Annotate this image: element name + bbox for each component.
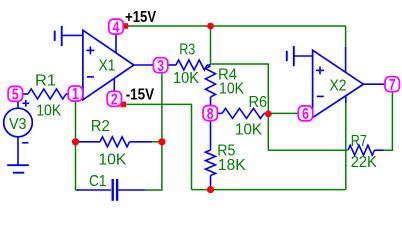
wire R6 junction to node 6	[268, 112, 298, 114]
wire +15V rail	[128, 25, 346, 27]
svg-text:10K: 10K	[36, 103, 61, 120]
wire R5 top stub	[210, 121, 212, 150]
ground at X2 + input	[294, 55, 312, 57]
node 1	[68, 86, 82, 101]
wire R3 left stub	[167, 64, 176, 66]
svg-text:6: 6	[302, 106, 309, 123]
wire R2 right green segment	[152, 141, 162, 143]
svg-text:7: 7	[389, 77, 396, 94]
resistor R4	[206, 66, 216, 97]
junction R2 left	[72, 138, 79, 145]
svg-text:8: 8	[207, 106, 214, 123]
wire X2 negative supply pin	[345, 95, 347, 103]
wire X2 positive supply drop	[345, 26, 347, 47]
voltage source V3	[4, 108, 33, 137]
junction R2 right	[158, 138, 165, 145]
resistor R3	[176, 60, 207, 70]
wire node 3 down to R2/C1 right	[145, 73, 162, 190]
wire node5 to V3	[17, 102, 19, 109]
svg-text:4: 4	[113, 19, 120, 36]
node 7	[385, 77, 399, 92]
junction R6 / R7	[265, 111, 272, 118]
wire R3 right stub	[207, 64, 211, 66]
svg-text:5: 5	[12, 87, 19, 104]
wire node2 pin	[113, 79, 115, 92]
svg-text:10K: 10K	[173, 70, 199, 87]
resistor R6	[222, 108, 264, 118]
wire -15V bottom rail	[192, 189, 346, 191]
svg-text:V3: V3	[9, 116, 27, 133]
wire X2 negative supply riser	[345, 103, 347, 190]
node 6	[298, 106, 312, 121]
node 2	[107, 91, 121, 106]
svg-text:2: 2	[111, 92, 118, 109]
svg-text:18K: 18K	[218, 157, 246, 174]
node 8	[203, 106, 217, 121]
svg-text:X2: X2	[330, 77, 347, 94]
wire R6 right stub	[264, 112, 268, 114]
svg-text:1: 1	[72, 86, 79, 103]
svg-text:R1: R1	[35, 72, 56, 89]
junction R5 bottom	[207, 186, 214, 193]
node 4	[109, 19, 123, 34]
node 3	[153, 58, 167, 73]
wire R7 left	[268, 149, 347, 151]
svg-text:-15V: -15V	[126, 87, 155, 104]
wire R7 right up to node 7	[384, 92, 393, 150]
svg-text:R6: R6	[249, 94, 268, 111]
wire R6 left stub	[218, 112, 222, 114]
wire V3 to ground	[17, 137, 19, 165]
wire R7 right stub	[375, 149, 384, 151]
wire +15V rail to R4/R3 junction	[210, 26, 212, 65]
wire R1 right stub	[66, 93, 69, 95]
resistor R7	[348, 145, 375, 155]
wire C1 left	[77, 189, 111, 191]
wire R5 bottom stub	[210, 176, 212, 189]
svg-text:C1: C1	[89, 173, 107, 190]
wire X1 output	[134, 64, 154, 66]
node 5	[8, 86, 22, 101]
svg-text:10K: 10K	[98, 152, 126, 169]
wire R4 bottom stub	[210, 97, 212, 106]
wire X2 output	[363, 83, 385, 85]
svg-text:X1: X1	[99, 58, 116, 75]
wire R2 left stub	[77, 141, 100, 143]
junction +15V / R4	[207, 23, 214, 30]
svg-text:R2: R2	[91, 118, 110, 135]
svg-text:22K: 22K	[351, 154, 377, 171]
op-amp X1	[83, 30, 134, 100]
junction -15V at node 2	[121, 102, 127, 108]
wire X2 positive supply pin	[345, 47, 347, 73]
svg-text:R7: R7	[351, 133, 367, 150]
capacitor C1	[111, 179, 113, 201]
svg-text:3: 3	[157, 58, 164, 75]
ground at X1 + input	[62, 34, 83, 36]
wire R2 right stub	[130, 141, 153, 143]
svg-text:10K: 10K	[235, 122, 262, 139]
wire node4 pin	[115, 35, 117, 54]
ground below V3	[7, 164, 29, 166]
wire -15V run	[127, 104, 192, 189]
resistor R1	[28, 89, 66, 99]
op-amp X2	[313, 50, 364, 117]
svg-text:10K: 10K	[219, 81, 244, 98]
wire C1 right	[118, 189, 145, 191]
junction +15V at node 4	[123, 23, 129, 29]
svg-text:R3: R3	[179, 42, 195, 59]
wire R1 left stub	[23, 93, 29, 95]
wire feedback R4 top to R6/R7 corner	[211, 64, 269, 150]
resistor R5	[206, 150, 216, 176]
wire node 1 down to R2/C1 left	[76, 101, 79, 190]
svg-text:+15V: +15V	[125, 9, 157, 26]
resistor R2	[100, 137, 130, 147]
